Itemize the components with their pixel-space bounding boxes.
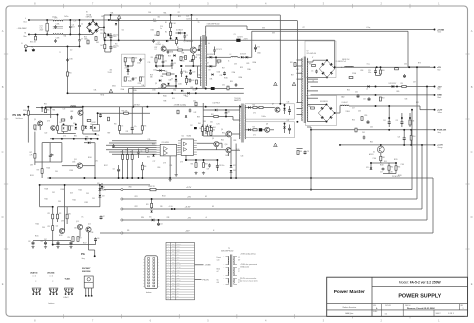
svg-text:R50: R50 xyxy=(114,124,117,126)
resistor R141 xyxy=(34,125,36,129)
svg-text:W16: W16 xyxy=(141,217,144,219)
svg-text:C10: C10 xyxy=(122,30,125,32)
svg-text:GBP206: GBP206 xyxy=(86,17,92,19)
wire standby return bus xyxy=(231,177,311,179)
svg-text:C62: C62 xyxy=(355,92,358,94)
PS-ON terminal xyxy=(23,114,25,116)
svg-text:GND1: GND1 xyxy=(112,86,116,88)
svg-text:C75: C75 xyxy=(97,135,100,137)
wire left drop 2 xyxy=(34,132,36,150)
capacitor C54 on -5V xyxy=(157,222,160,226)
svg-text:SB530 TuF: SB530 TuF xyxy=(342,59,350,61)
svg-text:C33: C33 xyxy=(234,64,237,66)
svg-text:R7: R7 xyxy=(177,47,179,49)
diode D25 on -5V rail xyxy=(152,219,154,222)
svg-text:C94: C94 xyxy=(58,201,61,203)
svg-text:D23: D23 xyxy=(70,193,73,195)
svg-text:R51: R51 xyxy=(401,83,404,85)
svg-text:GRY: GRY xyxy=(172,264,175,266)
svg-text:Reverse Circuit 02.01.2002: Reverse Circuit 02.01.2002 xyxy=(407,307,435,310)
comparator IC3 LM339 xyxy=(160,144,176,156)
svg-text:R22: R22 xyxy=(135,57,138,59)
callout PS-ON xyxy=(195,279,202,281)
table row 3 xyxy=(166,252,195,254)
standby feedback enclosure xyxy=(122,54,145,87)
T2 right winding xyxy=(306,58,309,121)
svg-text:PW-OK: PW-OK xyxy=(177,264,181,266)
svg-text:C38 10u: C38 10u xyxy=(219,165,224,167)
svg-text:0.1u: 0.1u xyxy=(40,27,43,29)
diode D3 xyxy=(175,79,178,81)
svg-text:334: 334 xyxy=(158,17,161,19)
wires feedback box xyxy=(127,66,129,69)
opto coupler U4 xyxy=(62,125,67,131)
svg-text:R117: R117 xyxy=(83,243,87,245)
svg-text:Q2: Q2 xyxy=(158,42,160,44)
svg-text:R103: R103 xyxy=(30,175,34,177)
resistor R51 xyxy=(402,85,406,87)
capacitor C121 bottom row xyxy=(70,241,73,245)
transformer T1 primary winding xyxy=(199,37,202,86)
table row 12 xyxy=(166,275,195,277)
resistor R143 xyxy=(180,57,182,61)
extra resistor R125 xyxy=(217,60,221,62)
wire primary return bus lower xyxy=(68,92,244,94)
standby transformer T3 core xyxy=(242,104,243,143)
wire top bus through D5 top corner dot xyxy=(326,59,328,61)
svg-text:TL431: TL431 xyxy=(108,72,113,74)
svg-text:R114: R114 xyxy=(36,224,40,226)
svg-text:PS ON: PS ON xyxy=(13,113,21,117)
warning triangle mid xyxy=(274,143,278,147)
svg-text:ZD3: ZD3 xyxy=(102,187,105,189)
capacitor C25 xyxy=(400,121,403,125)
extra resistor R123 xyxy=(157,32,159,36)
table row 1 xyxy=(166,247,195,249)
wire B+ bus xyxy=(104,14,280,16)
svg-text:2.5K: 2.5K xyxy=(125,68,128,70)
wire AC to bridge top xyxy=(87,19,93,21)
svg-text:+5V Ref: +5V Ref xyxy=(133,104,140,106)
svg-text:W21: W21 xyxy=(135,196,138,198)
channel 1 enclosure xyxy=(245,104,295,119)
zener ZD3 KA431 xyxy=(99,188,102,190)
svg-text:W19: W19 xyxy=(272,33,275,35)
svg-text:T0R04: T0R04 xyxy=(346,111,350,113)
T1 detail right pin stubs xyxy=(233,257,237,285)
svg-text:R63: R63 xyxy=(398,167,401,169)
title block outer box xyxy=(327,277,468,316)
svg-text:C57: C57 xyxy=(103,216,106,218)
resistor R50b xyxy=(410,136,412,141)
snubber capacitor C3 on B- bus xyxy=(236,39,240,42)
svg-text:+5VSB: +5VSB xyxy=(437,29,444,31)
rectifier diode D6 FR302 xyxy=(210,56,212,59)
ATX pin pair row 4 xyxy=(148,267,150,269)
svg-text:330K: 330K xyxy=(153,21,157,23)
svg-text:SG1: SG1 xyxy=(96,42,99,44)
svg-text:R107: R107 xyxy=(104,165,108,167)
svg-text:C74: C74 xyxy=(63,136,66,138)
svg-text:C56: C56 xyxy=(97,238,100,240)
svg-text:R64: R64 xyxy=(198,123,201,125)
table row 13 xyxy=(166,278,195,280)
svg-text:FSCM NO: FSCM NO xyxy=(385,305,391,307)
svg-text:431: 431 xyxy=(110,70,113,72)
extra resistor R128 xyxy=(395,68,399,70)
channel1 resistor R45 xyxy=(253,106,257,108)
wire L1 to +12V terminal xyxy=(349,105,420,107)
svg-text:W22: W22 xyxy=(135,206,138,208)
svg-text:C23: C23 xyxy=(368,70,371,72)
wire rail +3.3V xyxy=(122,208,422,210)
input filter capacitor C9 xyxy=(109,45,112,49)
capacitor C122 xyxy=(167,50,170,54)
resistor R67 xyxy=(202,163,204,168)
wire B- drop to rectifier D5 xyxy=(334,40,336,69)
wire logic row bottom xyxy=(50,138,98,140)
wire primary bus 2 xyxy=(111,20,298,22)
svg-text:KDE139EPR1432: KDE139EPR1432 xyxy=(221,250,234,252)
svg-text:C11: C11 xyxy=(164,60,167,62)
svg-text:103: 103 xyxy=(72,26,75,28)
extra resistor R121 xyxy=(87,40,89,44)
wire aux bus corner down xyxy=(407,31,409,67)
terminal +5VSB xyxy=(434,29,436,31)
svg-text:COL: COL xyxy=(172,243,175,245)
resistor R10 xyxy=(166,73,170,75)
table row 11 xyxy=(166,273,195,275)
svg-text:R4: R4 xyxy=(101,45,103,47)
wire left top link xyxy=(27,107,29,111)
svg-text:8T: 8T xyxy=(238,282,240,284)
junction dots output filters xyxy=(388,129,390,131)
svg-text:R106: R106 xyxy=(88,157,92,159)
diode D2 xyxy=(159,69,161,72)
wire rail -5V xyxy=(122,219,427,221)
capacitor CX1 xyxy=(46,23,49,31)
svg-text:R58: R58 xyxy=(290,62,293,64)
ATX pin pair row 9 xyxy=(148,282,150,284)
callout +5VSB xyxy=(195,264,204,266)
svg-text:WHT: WHT xyxy=(172,290,175,292)
extra resistor R129 xyxy=(361,117,363,121)
protective earth symbol FG xyxy=(32,48,35,51)
svg-text:D23: D23 xyxy=(366,167,369,169)
stub wires T2 to D5 xyxy=(307,61,313,63)
svg-text:E13007: E13007 xyxy=(196,55,201,57)
svg-text:C6: C6 xyxy=(72,24,74,26)
capacitor C23 xyxy=(374,70,377,74)
svg-text:330p: 330p xyxy=(173,89,176,91)
svg-text:BLU: BLU xyxy=(172,275,175,277)
svg-text:C39: C39 xyxy=(207,169,210,171)
wire B- bus xyxy=(104,39,335,41)
svg-text:D6 FR302: D6 FR302 xyxy=(207,54,214,56)
svg-text:R140: R140 xyxy=(23,110,27,112)
wire primary return bus upper xyxy=(129,88,244,90)
svg-text:C98: C98 xyxy=(91,232,94,234)
resistor R71 xyxy=(34,154,36,159)
svg-text:R9: R9 xyxy=(151,57,153,59)
svg-text:R73: R73 xyxy=(48,213,51,215)
extra capacitor C114 xyxy=(99,114,102,118)
title block model row divider xyxy=(372,285,468,287)
extra capacitor C102 xyxy=(54,25,57,29)
extra diode blob D39 xyxy=(167,83,169,85)
extra diode D33 xyxy=(181,90,183,92)
svg-text:R31: R31 xyxy=(47,109,50,111)
svg-text:R68: R68 xyxy=(191,164,194,166)
T3 secondary winding xyxy=(244,105,247,139)
svg-text:4.7K: 4.7K xyxy=(30,154,33,156)
wire +12V rectified xyxy=(335,66,435,68)
svg-text:Q5: Q5 xyxy=(34,119,36,121)
table row 18 xyxy=(166,291,195,293)
svg-text:W20: W20 xyxy=(129,187,132,189)
svg-text:COM: COM xyxy=(177,277,180,279)
wires output filter verticals xyxy=(388,106,390,118)
snubber capacitor C51 xyxy=(315,70,318,74)
svg-text:Q6: Q6 xyxy=(221,129,223,131)
svg-text:BLK: BLK xyxy=(172,285,175,287)
svg-text:ORG: ORG xyxy=(172,249,175,251)
wire opto riser xyxy=(97,113,99,125)
svg-text:D2: D2 xyxy=(156,67,158,69)
svg-text:DWG NO: DWG NO xyxy=(405,305,410,307)
rectifier diode D19 xyxy=(246,56,248,59)
junction dots AC top extension xyxy=(92,19,94,21)
svg-text:R79: R79 xyxy=(418,63,421,65)
PG comparator transistors Q13 xyxy=(77,224,82,229)
svg-text:Q9: Q9 xyxy=(212,138,214,140)
wire output mid 2 xyxy=(311,94,435,96)
diode D26 on -12V extension xyxy=(101,186,104,188)
opto coupler U3 xyxy=(93,125,100,132)
svg-text:ZD1: ZD1 xyxy=(210,122,213,124)
svg-text:bottom: bottom xyxy=(49,302,55,305)
border zone ticks left/right xyxy=(4,54,470,249)
svg-text:C41: C41 xyxy=(227,112,230,114)
table row 10 xyxy=(166,270,195,272)
svg-text:Bleu: Bleu xyxy=(24,36,27,38)
drive coupling cluster below T2 xyxy=(297,151,299,155)
svg-text:2SD1398: 2SD1398 xyxy=(82,271,91,273)
svg-text:1.2n: 1.2n xyxy=(74,21,77,23)
svg-text:BLK: BLK xyxy=(172,288,175,290)
junction dot B+ Q1 collector xyxy=(191,14,193,16)
wire rectified aux to bus drop xyxy=(251,31,253,57)
svg-text:R65: R65 xyxy=(204,121,207,123)
wire standby aux upper xyxy=(36,107,83,109)
resistor R36 xyxy=(141,165,143,170)
capacitor C36 xyxy=(254,46,257,50)
channel2 dots xyxy=(296,121,298,123)
diode D22 xyxy=(392,85,394,88)
svg-text:Vladimir Executive: Vladimir Executive xyxy=(342,306,356,309)
fuse PR07 on +12V rail xyxy=(150,188,156,190)
svg-text:ORG: ORG xyxy=(172,246,175,248)
resistor R31 xyxy=(44,109,46,113)
svg-text:4.7u: 4.7u xyxy=(134,126,137,128)
T2 left winding xyxy=(301,58,304,121)
channel2 resistor R47 xyxy=(253,129,257,131)
svg-text:COM: COM xyxy=(177,288,180,290)
channel1 transistor Q7 xyxy=(275,107,280,112)
svg-text:R104: R104 xyxy=(47,168,51,170)
varistor RV1 xyxy=(34,36,36,40)
svg-text:R112: R112 xyxy=(73,200,77,202)
resistor R52 xyxy=(379,97,381,101)
PWM controller IC1 TL494 xyxy=(181,139,193,155)
standby switch transistor Q6 2SC3457 xyxy=(226,131,232,137)
diode D43 xyxy=(173,54,175,56)
T2 stub wires right xyxy=(307,78,318,80)
svg-text:COM: COM xyxy=(177,285,180,287)
svg-text:Q10: Q10 xyxy=(225,144,228,146)
transistor Q5 xyxy=(38,121,43,126)
svg-text:C25: C25 xyxy=(396,120,399,122)
svg-text:R69: R69 xyxy=(300,151,303,153)
ground sym 3 xyxy=(194,172,197,175)
sense network diode D23 xyxy=(370,167,373,169)
ATX pin pair row 5 xyxy=(148,270,150,272)
svg-text:C72: C72 xyxy=(63,109,66,111)
svg-text:C99: C99 xyxy=(61,221,64,223)
table row 8 xyxy=(166,265,195,267)
svg-text:e c b: e c b xyxy=(50,276,53,278)
svg-text:R141: R141 xyxy=(36,125,40,127)
svg-text:R31: R31 xyxy=(44,104,47,106)
resistor R61 sense xyxy=(380,156,382,160)
IC3 pin stubs right xyxy=(177,146,180,155)
IC1 pin stubs right xyxy=(194,141,197,155)
svg-text:R105: R105 xyxy=(70,170,74,172)
wire +5V ref standby rail xyxy=(45,106,241,108)
extra capacitor C113 xyxy=(70,116,73,120)
svg-text:R108: R108 xyxy=(45,189,49,191)
table row 19 xyxy=(166,294,195,296)
svg-text:C101: C101 xyxy=(401,164,405,166)
transistor Q15 standby xyxy=(78,110,83,115)
svg-text:D21: D21 xyxy=(60,122,63,124)
resistor R56 10K xyxy=(124,112,129,114)
extra capacitor C111 xyxy=(363,136,366,140)
svg-text:C123: C123 xyxy=(192,72,195,74)
svg-text:bottom: bottom xyxy=(146,291,152,294)
wire N to filter xyxy=(29,33,47,35)
svg-text:Q7: Q7 xyxy=(272,104,274,106)
svg-text:W7: W7 xyxy=(303,27,305,29)
junction dots PS-ON area xyxy=(41,107,43,109)
diode D12 xyxy=(230,165,233,167)
svg-text:R143: R143 xyxy=(182,57,185,59)
fscm cell xyxy=(402,304,404,310)
extra diode D37 xyxy=(152,154,154,156)
svg-text:C24: C24 xyxy=(383,120,386,122)
svg-text:C5: C5 xyxy=(81,24,83,26)
transformer T1 secondary winding xyxy=(205,37,208,86)
svg-text:R53: R53 xyxy=(361,70,364,72)
sense network resistor R62 xyxy=(388,166,390,170)
wire rail -12V xyxy=(100,232,433,234)
bleeder resistor R4 xyxy=(104,44,106,48)
T1 detail left pin stubs xyxy=(226,257,230,285)
svg-text:RED: RED xyxy=(172,296,175,298)
svg-text:FR155: FR155 xyxy=(180,61,185,63)
svg-text:D8: D8 xyxy=(209,70,211,72)
svg-text:R118: R118 xyxy=(380,165,384,167)
svg-text:R1: R1 xyxy=(165,22,167,24)
svg-text:D25: D25 xyxy=(149,216,152,218)
rectifier diode D7 FR302 xyxy=(210,65,212,68)
rail connector rings xyxy=(121,189,123,191)
svg-text:R91: R91 xyxy=(170,165,173,167)
PG capacitor C57 xyxy=(100,216,103,220)
svg-text:IC3 LM339: IC3 LM339 xyxy=(162,142,170,144)
transistor Q2 2SC945 driver xyxy=(161,46,166,51)
extra resistor R122 xyxy=(95,37,97,41)
svg-text:Q13: Q13 xyxy=(76,221,79,223)
capacitor C45 xyxy=(94,127,97,131)
table row 17 xyxy=(166,288,195,290)
output choke L2 xyxy=(345,65,354,68)
warning triangle high voltage xyxy=(117,15,121,19)
wire rail +12V xyxy=(104,189,412,191)
svg-text:C91: C91 xyxy=(95,161,98,163)
extra resistor R134 xyxy=(107,117,109,121)
svg-text:3.5T: 3.5T xyxy=(352,108,355,110)
warning triangle channel 2 xyxy=(292,82,296,86)
diode D41 xyxy=(85,126,87,128)
svg-text:C100: C100 xyxy=(373,158,377,160)
svg-text:+5V: +5V xyxy=(187,197,191,199)
svg-text:+12V: +12V xyxy=(177,269,180,271)
svg-text:E: E xyxy=(2,282,4,286)
svg-text:D28: D28 xyxy=(116,21,119,23)
svg-text:D: D xyxy=(471,215,473,219)
svg-text:ORG: ORG xyxy=(172,272,175,274)
svg-text:2n2: 2n2 xyxy=(70,50,73,52)
svg-text:R52: R52 xyxy=(382,98,385,100)
sense network resistor R63 xyxy=(395,166,397,170)
legend TO-220 package xyxy=(84,276,93,288)
svg-text:Y1: Y1 xyxy=(59,52,61,54)
emitter resistor R8 xyxy=(192,56,194,60)
svg-text:R56: R56 xyxy=(352,120,355,122)
extra zener ZD4 xyxy=(209,125,211,127)
svg-text:D29: D29 xyxy=(102,196,105,198)
legend 2SC945 package xyxy=(49,288,58,292)
svg-text:RV1 471: RV1 471 xyxy=(30,42,36,44)
svg-text:PG: PG xyxy=(81,252,85,256)
svg-text:+12V: +12V xyxy=(437,110,443,112)
svg-text:B: B xyxy=(471,85,473,89)
svg-text:POWER SUPPLY: POWER SUPPLY xyxy=(398,294,441,300)
junction dots standby rail xyxy=(82,106,84,108)
svg-text:C: C xyxy=(471,150,473,154)
svg-text:R89: R89 xyxy=(147,157,150,159)
svg-text:U3 817: U3 817 xyxy=(92,122,97,124)
shunt regulator TL431 xyxy=(127,69,130,72)
svg-text:R72: R72 xyxy=(37,170,40,172)
extra capacitor C103 xyxy=(54,39,57,43)
svg-text:C61: C61 xyxy=(296,69,299,71)
ground sym left block xyxy=(50,154,53,157)
resistor R41 xyxy=(214,115,218,117)
coupling capacitor C12 xyxy=(171,63,174,67)
svg-text:D7: D7 xyxy=(207,63,209,65)
